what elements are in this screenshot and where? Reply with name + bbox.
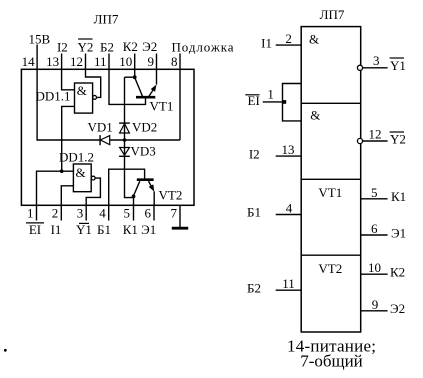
svg-text:I1: I1: [261, 35, 272, 50]
svg-text:DD1.2: DD1.2: [59, 149, 94, 164]
svg-text:Y2: Y2: [77, 40, 93, 55]
svg-text:I2: I2: [249, 146, 260, 161]
svg-text:12: 12: [70, 54, 83, 69]
svg-text:1: 1: [267, 87, 274, 102]
svg-text:8: 8: [171, 54, 178, 69]
svg-text:VT1: VT1: [318, 185, 342, 200]
svg-text:I2: I2: [57, 40, 68, 55]
svg-text:3: 3: [77, 206, 84, 221]
svg-text:3: 3: [373, 53, 380, 68]
svg-text:13: 13: [46, 54, 59, 69]
svg-text:15В: 15В: [29, 32, 51, 47]
svg-text:ЛП7: ЛП7: [320, 7, 345, 22]
svg-text:К2: К2: [390, 264, 405, 279]
svg-text:VT1: VT1: [150, 99, 174, 114]
svg-text:К1: К1: [123, 222, 138, 237]
svg-text:Э1: Э1: [391, 225, 406, 240]
svg-text:6: 6: [145, 206, 152, 221]
svg-text:DD1.1: DD1.1: [35, 88, 70, 103]
svg-text:7-общий: 7-общий: [300, 352, 363, 371]
svg-text:VD1: VD1: [88, 120, 113, 135]
svg-text:ЕI: ЕI: [29, 222, 41, 237]
svg-text:13: 13: [282, 142, 295, 157]
svg-text:2: 2: [52, 206, 59, 221]
svg-text:10: 10: [119, 54, 132, 69]
svg-text:10: 10: [368, 260, 381, 275]
svg-text:4: 4: [99, 206, 106, 221]
svg-text:1: 1: [27, 206, 34, 221]
svg-text:9: 9: [148, 54, 155, 69]
svg-text:Б1: Б1: [97, 222, 111, 237]
svg-text:Y1: Y1: [390, 58, 406, 73]
svg-text:11: 11: [282, 276, 295, 291]
svg-text:Б2: Б2: [247, 280, 261, 295]
svg-text:К1: К1: [391, 189, 406, 204]
svg-text:11: 11: [94, 54, 107, 69]
svg-text:9: 9: [372, 297, 379, 312]
svg-text:12: 12: [369, 127, 382, 142]
svg-text:Э1: Э1: [141, 222, 156, 237]
svg-text:&: &: [310, 108, 320, 123]
svg-text:2: 2: [285, 31, 292, 46]
svg-text:I1: I1: [51, 222, 62, 237]
svg-text:VT2: VT2: [318, 261, 342, 276]
svg-text:Y2: Y2: [390, 131, 406, 146]
svg-text:6: 6: [371, 221, 378, 236]
svg-text:VT2: VT2: [159, 188, 183, 203]
svg-text:ЛП7: ЛП7: [94, 12, 119, 27]
svg-text:Э2: Э2: [142, 39, 157, 54]
svg-text:Б1: Б1: [247, 205, 261, 220]
svg-text:Подложка: Подложка: [172, 40, 234, 55]
svg-text:7: 7: [171, 206, 178, 221]
svg-text:5: 5: [124, 206, 131, 221]
svg-text:VD3: VD3: [131, 144, 156, 159]
svg-text:Э2: Э2: [390, 301, 405, 316]
svg-text:4: 4: [286, 201, 293, 216]
svg-text:Y1: Y1: [76, 222, 92, 237]
svg-text:&: &: [77, 83, 87, 98]
svg-text:14: 14: [22, 54, 36, 69]
svg-text:&: &: [309, 32, 319, 47]
svg-text:VD2: VD2: [132, 120, 157, 135]
svg-text:К2: К2: [123, 39, 138, 54]
svg-text:5: 5: [371, 185, 378, 200]
svg-text:Б2: Б2: [100, 40, 114, 55]
svg-text:&: &: [76, 165, 86, 180]
